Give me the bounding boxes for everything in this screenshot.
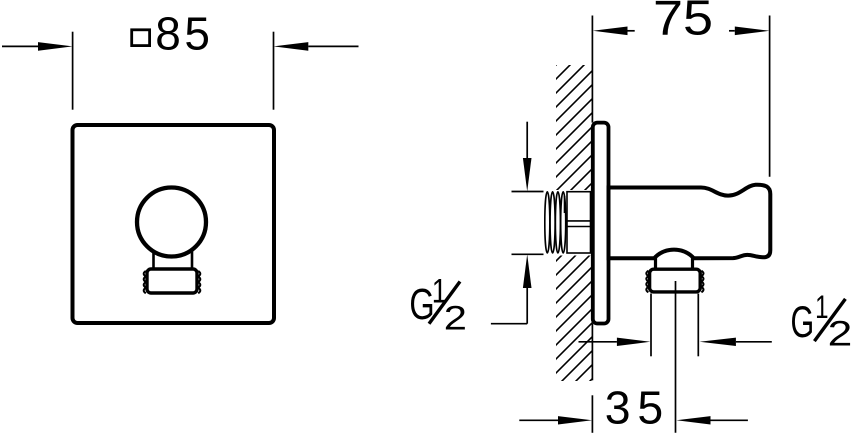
svg-text:2: 2: [828, 314, 853, 354]
svg-text:75: 75: [653, 0, 713, 46]
svg-text:G: G: [791, 297, 815, 347]
svg-text:1: 1: [815, 289, 828, 325]
svg-text:2: 2: [444, 299, 467, 337]
